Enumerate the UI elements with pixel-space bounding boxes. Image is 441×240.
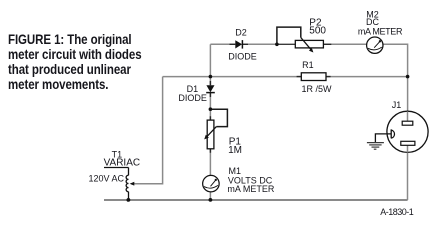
node: D1/R1 junction (209, 75, 213, 79)
wire: component pin stubs (210, 44, 331, 153)
svg-text:VARIAC: VARIAC (104, 158, 141, 169)
node: M1 bottom rail junction (209, 198, 213, 202)
svg-text:DC: DC (366, 17, 379, 27)
svg-text:R1: R1 (302, 60, 314, 70)
meter M2 (367, 37, 383, 53)
wire: top branch D2 left lead (210, 43, 235, 45)
wire: R1 line right segment (326, 76, 408, 78)
meter M1 (203, 175, 220, 192)
wire: variac wiper to R1 line (horizontal then up) (131, 77, 163, 184)
transformer T1 variac coil (126, 168, 128, 201)
wire: J1 bottom to rail (407, 145, 409, 200)
node: P2 left node (275, 43, 279, 47)
node: T1 bottom rail junction (126, 198, 130, 202)
wire: P2 left lead (277, 43, 295, 45)
svg-text:D2: D2 (235, 27, 247, 37)
wire: P2 right lead to M2 (324, 43, 367, 45)
wire: vertical from top branch to R1 line junction (209, 44, 211, 76)
connector J1 (387, 111, 428, 152)
figure caption (8, 32, 142, 92)
svg-text:DIODE: DIODE (228, 51, 257, 61)
wire: R1 line left segment (163, 76, 302, 78)
wire: bottom rail (104, 199, 408, 201)
svg-text:DIODE: DIODE (178, 93, 207, 103)
diode D2 (235, 40, 242, 49)
svg-text:mA METER: mA METER (227, 184, 275, 194)
svg-text:mA METER: mA METER (358, 27, 403, 37)
wire: D2 cathode to P2 node (242, 43, 277, 45)
wire: D1 branch verticals (209, 77, 211, 200)
svg-text:1R /5W: 1R /5W (302, 84, 333, 94)
node: R1 right junction (406, 75, 410, 79)
resistor R1 (301, 73, 326, 81)
svg-text:120V AC: 120V AC (89, 174, 125, 184)
potentiometer P1 (204, 109, 227, 149)
wire: variac top stub / VARIAC underline (104, 167, 129, 169)
node: D1 bottom / P1 wiper junction (209, 107, 213, 111)
svg-text:1M: 1M (228, 145, 242, 156)
diode D1 (206, 85, 215, 92)
svg-text:M1: M1 (229, 166, 242, 176)
wire: J1 top inner stub (407, 111, 409, 121)
svg-text:J1: J1 (392, 100, 402, 110)
svg-text:A-1830-1: A-1830-1 (380, 207, 414, 217)
wire: J1 ground lead (375, 134, 391, 142)
wire: M2 to right corner and down to J1 (383, 44, 408, 111)
svg-text:500: 500 (309, 26, 326, 37)
potentiometer P2 (277, 27, 324, 52)
T1 wiper arrowhead (130, 182, 135, 186)
ground symbol (367, 143, 384, 150)
